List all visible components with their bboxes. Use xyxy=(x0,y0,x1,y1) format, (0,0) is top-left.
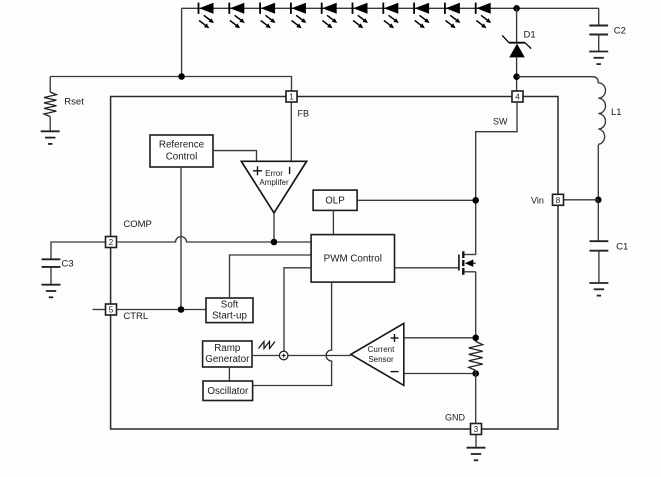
inductor L1 xyxy=(593,77,606,145)
diode D1 (zener) xyxy=(502,35,531,57)
wire C3 to ground xyxy=(50,267,52,285)
wire PWM Control to summing node xyxy=(284,268,311,351)
label Vin xyxy=(531,195,544,205)
svg-text:Soft: Soft xyxy=(221,300,239,311)
svg-text:FB: FB xyxy=(298,109,310,119)
svg-text:CTRL: CTRL xyxy=(123,311,148,322)
svg-text:C3: C3 xyxy=(62,259,74,270)
ground at Rset xyxy=(41,131,60,144)
wire COMP line (pin2 to PWM Control, hop over vertical) xyxy=(117,237,312,243)
ground at C1 xyxy=(589,283,608,296)
svg-text:1: 1 xyxy=(289,93,294,102)
wire pin1 to error amp inverting input xyxy=(290,102,292,161)
svg-text:Reference: Reference xyxy=(159,140,205,151)
label Rset xyxy=(64,97,84,108)
op-amp U1 Error Amplifer xyxy=(241,161,306,213)
resistor R sense xyxy=(469,342,483,371)
node junction FB rail / LED drop xyxy=(178,73,185,80)
svg-text:Error: Error xyxy=(265,169,283,178)
ground at pin 3 xyxy=(467,448,486,461)
node junction CTRL / reference vertical xyxy=(178,306,185,313)
svg-text:Ramp: Ramp xyxy=(214,343,241,354)
svg-text:Rset: Rset xyxy=(64,97,84,108)
pin 4 (SW) xyxy=(512,91,523,102)
svg-text:2: 2 xyxy=(109,238,114,247)
node junction top rail / D1 xyxy=(513,5,520,12)
svg-text:GND: GND xyxy=(445,413,466,423)
wire OLP to drain node xyxy=(357,199,476,201)
svg-text:Amplifer: Amplifer xyxy=(259,178,289,187)
wire MOSFET source to sense resistor xyxy=(475,272,477,342)
pin 2 (COMP) xyxy=(106,237,117,248)
pin 1 (FB) xyxy=(286,91,297,102)
wire Ramp Generator to Oscillator xyxy=(228,367,230,381)
capacitor C1 xyxy=(590,241,609,251)
label FB xyxy=(298,109,310,119)
label SW xyxy=(493,117,508,127)
wire top LED rail xyxy=(182,7,599,9)
label L1 xyxy=(611,107,622,118)
wire pin3 to ground xyxy=(475,435,477,448)
wire Vin node to C1 xyxy=(597,200,599,241)
block Reference Control xyxy=(150,135,213,167)
wire D1 cathode to pin 4 xyxy=(516,57,518,91)
label C2 xyxy=(614,26,626,37)
ground at C3 xyxy=(42,285,61,298)
svg-text:4: 4 xyxy=(515,93,520,102)
wire pin4 to MOSFET drain xyxy=(476,102,517,255)
svg-text:Start-up: Start-up xyxy=(212,311,247,322)
wire PWM Control to MOSFET gate xyxy=(395,267,459,269)
IC body outline xyxy=(111,97,558,430)
svg-text:Sensor: Sensor xyxy=(368,355,394,364)
wire OLP to PWM Control xyxy=(332,210,334,234)
wire Reference Control to CTRL line xyxy=(180,167,182,310)
LED 6 of string xyxy=(353,3,369,29)
node junction OLP wire / drain xyxy=(472,197,479,204)
svg-text:Oscillator: Oscillator xyxy=(207,386,249,397)
node junction D1 / L1 feed xyxy=(513,73,520,80)
wire D1 anode to top rail xyxy=(516,8,518,43)
svg-text:PWM Control: PWM Control xyxy=(324,254,382,265)
wire Soft Start-up to PWM Control xyxy=(230,255,312,298)
svg-text:Generator: Generator xyxy=(205,354,250,365)
wire L1 to Vin node xyxy=(597,145,599,200)
op-amp Current Sensor xyxy=(351,323,404,385)
capacitor C2 xyxy=(589,26,608,35)
LED 1 of string xyxy=(199,3,215,29)
wire Vin node to pin 8 xyxy=(564,199,599,201)
pin 8 (Vin) xyxy=(553,194,564,205)
block OLP xyxy=(313,190,357,210)
node junction L1 / C1 / Vin xyxy=(595,197,602,204)
wire left LED-string drop to FB rail xyxy=(181,8,183,76)
svg-text:8: 8 xyxy=(556,196,561,205)
block PWM Control xyxy=(311,235,394,283)
svg-text:Vin: Vin xyxy=(531,195,544,205)
summing node (circle +) xyxy=(279,351,288,360)
pin 3 (GND) xyxy=(471,424,482,435)
wire SW node to L1 xyxy=(517,76,593,78)
svg-text:COMP: COMP xyxy=(123,219,151,230)
label GND xyxy=(445,413,466,423)
svg-text:C2: C2 xyxy=(614,26,626,37)
wire pin2 to C3 xyxy=(51,242,106,259)
label CTRL xyxy=(123,311,148,322)
pin 5 (CTRL) xyxy=(106,304,117,315)
wire Reference Control to error amp + input xyxy=(213,151,257,162)
label C3 xyxy=(62,259,74,270)
wire C1 to ground xyxy=(598,251,600,283)
sawtooth waveform icon xyxy=(259,342,276,349)
node junction sense resistor bottom xyxy=(472,370,479,377)
resistor Rset xyxy=(44,77,56,132)
LED 9 of string xyxy=(445,3,461,29)
LED 4 of string xyxy=(291,3,307,29)
wire sense resistor to pin 3 xyxy=(475,371,477,424)
LED 7 of string xyxy=(383,3,399,29)
wire CTRL line pin5 to Soft Start-up xyxy=(117,309,207,311)
wire Ramp Generator to summing node xyxy=(252,355,279,357)
transistor Q1 (power NMOS) xyxy=(459,251,476,274)
LED 8 of string xyxy=(414,3,430,29)
wire current sensor - input xyxy=(404,373,476,375)
wire current sensor + input xyxy=(404,337,476,339)
block Soft Start-up xyxy=(206,298,253,323)
svg-text:L1: L1 xyxy=(611,107,622,118)
svg-text:OLP: OLP xyxy=(325,196,345,207)
ground at C2 xyxy=(589,52,608,65)
block Oscillator xyxy=(203,381,253,401)
LED 5 of string xyxy=(322,3,338,29)
svg-text:Current: Current xyxy=(368,345,395,354)
capacitor C3 xyxy=(42,259,61,267)
svg-text:5: 5 xyxy=(109,306,114,315)
wire FB rail (Rset to pin 1) xyxy=(50,77,291,92)
wire Oscillator to PWM Control (hop over sensor wire) xyxy=(253,282,332,385)
LED 3 of string xyxy=(260,3,276,29)
svg-text:3: 3 xyxy=(474,425,479,434)
wire C2 to ground xyxy=(598,35,600,52)
LED 2 of string xyxy=(229,3,245,29)
svg-text:Control: Control xyxy=(166,152,198,163)
wire top rail to C2 xyxy=(598,8,600,25)
wire stub left of pin 5 xyxy=(93,309,106,311)
svg-text:C1: C1 xyxy=(616,242,628,253)
node junction sense resistor top xyxy=(472,335,479,342)
label C1 xyxy=(616,242,628,253)
wire summing node to current sensor output xyxy=(288,355,351,357)
wire error amp output to COMP line xyxy=(273,213,275,242)
svg-text:D1: D1 xyxy=(524,30,536,41)
label COMP xyxy=(123,219,151,230)
LED 10 of string xyxy=(476,3,492,29)
svg-text:SW: SW xyxy=(493,117,508,127)
node junction COMP / error amp output xyxy=(271,239,278,246)
label D1 xyxy=(524,30,536,41)
block Ramp Generator xyxy=(203,341,252,367)
